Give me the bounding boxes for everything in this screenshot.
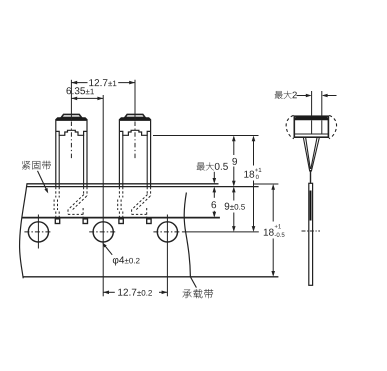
- component S2 right lead: [150, 121, 152, 187]
- sprocket hole H1 horizontal crosshair: [24, 231, 52, 233]
- component S2 right lead foot: [147, 219, 151, 224]
- fastening tape top edge (upper line): [27, 183, 219, 185]
- dimension 18+1/0 line: [253, 137, 255, 165]
- fastening tape seating line: [27, 186, 259, 188]
- side view hole centerline tick: [302, 230, 321, 232]
- component S2 centerline: [134, 122, 136, 161]
- dimension max0.5 arrow: [213, 172, 215, 182]
- side view converging leads: [303, 137, 310, 171]
- extension line switch S2 center: [134, 80, 136, 121]
- dimension 9 line: [233, 137, 235, 155]
- side view tape strip: [309, 183, 313, 285]
- side view dimension max2 line: [297, 95, 311, 97]
- component S2 left lead: [118, 121, 120, 187]
- carrier tape bottom edge: [23, 276, 278, 278]
- side view lead lines inside body: [311, 120, 313, 134]
- side view body top band: [294, 116, 328, 120]
- dimension max0.5 text: [197, 163, 205, 171]
- dimension 6 text: [212, 201, 217, 208]
- extension line fastening tape top right: [253, 183, 278, 185]
- component S2 plunger: [125, 114, 145, 117]
- carrier tape right break edge: [184, 193, 190, 278]
- side view body: [294, 116, 328, 137]
- carrier tape top edge: [22, 217, 220, 219]
- side view lead to tape: [310, 170, 312, 184]
- dimension 18+1/0 text: [244, 171, 254, 178]
- dimension 18+1/-0.5 text: [264, 229, 274, 236]
- dimension 9 text: [232, 158, 237, 165]
- component S1 right lead: [86, 121, 88, 187]
- side view body base seam: [295, 133, 328, 135]
- component S2 left lead foot: [119, 219, 123, 224]
- hole H2 centerline extension to 12.7 dim: [102, 249, 104, 297]
- component S2 left lead hidden kink: [118, 187, 120, 198]
- component S2 right lead hidden kink: [146, 187, 148, 195]
- hole H2 centerline / 6.35 extension line: [102, 95, 104, 249]
- sprocket hole H3 horizontal crosshair: [153, 231, 181, 233]
- dimension φ4±0.2 leader: [104, 244, 113, 255]
- sprocket hole H3 vertical crosshair: [166, 215, 168, 249]
- component S1 left lead: [55, 121, 57, 187]
- component S2 body bottom profile: [119, 130, 150, 135]
- component S2 body cap band: [119, 117, 151, 121]
- side view lead extension lines: [311, 91, 313, 134]
- dimension 12.7±0.2 line: [103, 291, 115, 293]
- component S1 plunger: [61, 114, 81, 117]
- label fastening tape leader: [38, 171, 47, 191]
- sprocket hole H3: [157, 222, 177, 242]
- dimension 9±0.5 line: [233, 188, 235, 200]
- dimension 9±0.5 text: [225, 203, 230, 210]
- hole centerline extension to right dims: [182, 231, 259, 233]
- component S1 right lead foot: [83, 219, 87, 224]
- component S1 centerline: [70, 122, 72, 161]
- dimension 6 line: [213, 188, 215, 197]
- sprocket hole H2 horizontal crosshair: [89, 231, 117, 233]
- component S1 left lead hidden kink: [55, 187, 57, 198]
- sprocket hole H1: [28, 222, 48, 242]
- sprocket hole H2: [93, 222, 113, 242]
- component S1 right lead hidden kink: [83, 187, 85, 195]
- carrier tape left break edge: [20, 184, 27, 279]
- dimension 12.7±1 line: [71, 82, 87, 84]
- dimension 12.7±1 text: [89, 79, 107, 86]
- label carrier tape (承载带): [182, 290, 191, 298]
- dimension 6.35±1 text: [67, 87, 86, 94]
- hole H3 extension to 12.7 dim: [166, 249, 168, 297]
- sprocket hole H1 vertical crosshair: [37, 215, 39, 249]
- dimension φ4±0.2 text: [113, 257, 124, 266]
- dimension 6.35±1 line: [71, 97, 103, 99]
- label fastening tape (紧固带): [22, 161, 30, 170]
- side view dimension max2 text: [275, 91, 283, 99]
- component S1 left lead foot: [55, 219, 59, 224]
- label carrier tape leader: [191, 277, 197, 287]
- side view lead inside tape: [310, 191, 312, 221]
- component S1 body cap band: [55, 117, 87, 121]
- dimension 12.7±0.2 text: [118, 289, 136, 296]
- extension line body bottom: [153, 135, 259, 137]
- side view left dashed flange: [286, 115, 294, 138]
- side view right dashed flange: [329, 115, 337, 138]
- extension line switch S1 center: [70, 80, 72, 121]
- dimension 18+1/-0.5 line: [272, 186, 274, 222]
- component S1 body bottom profile: [56, 130, 87, 135]
